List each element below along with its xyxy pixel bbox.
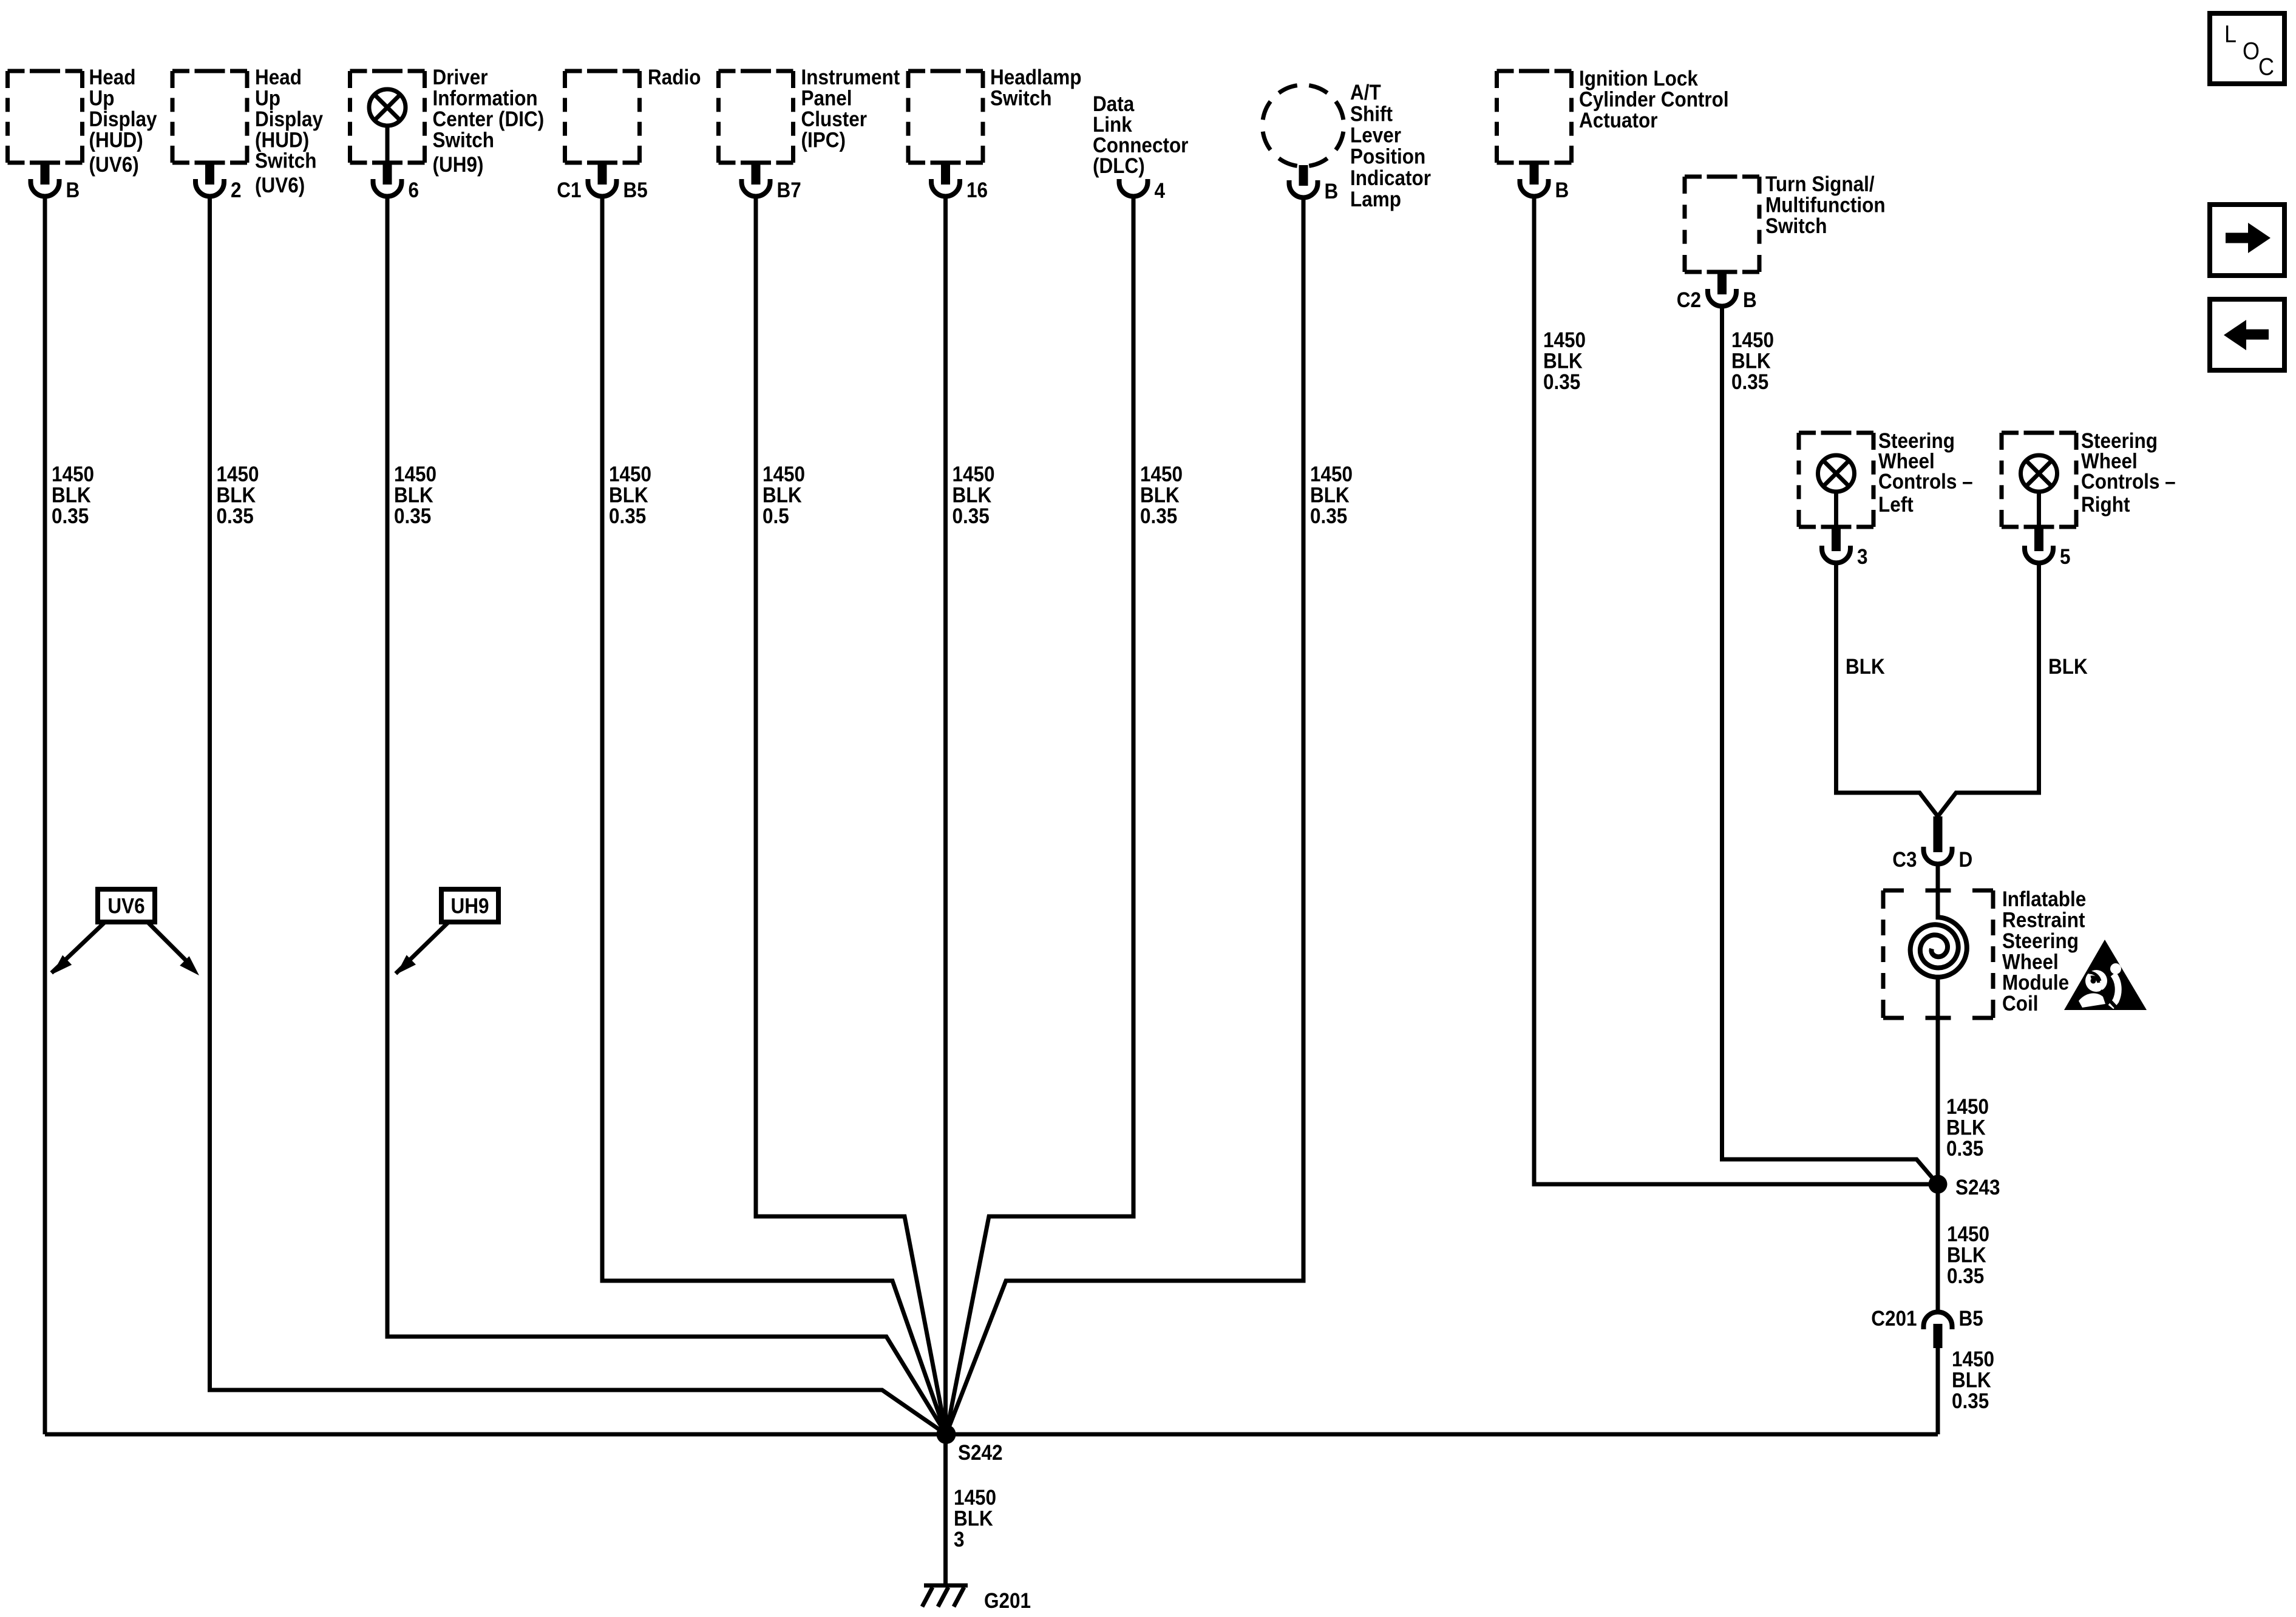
svg-text:Left: Left [1878,493,1914,517]
svg-text:3: 3 [1857,546,1868,569]
svg-text:C1: C1 [557,179,581,203]
svg-text:BLK: BLK [2048,656,2088,679]
svg-text:C201: C201 [1871,1307,1917,1331]
svg-text:B: B [66,179,80,203]
svg-text:0.35: 0.35 [953,504,990,528]
svg-text:4: 4 [1155,180,1166,203]
svg-text:(DLC): (DLC) [1093,155,1145,178]
svg-text:0.35: 0.35 [1731,370,1768,394]
svg-text:5: 5 [2060,546,2071,569]
svg-text:Actuator: Actuator [1579,109,1657,132]
svg-text:S242: S242 [958,1442,1003,1465]
svg-text:BLK: BLK [954,1507,993,1531]
svg-text:Inflatable: Inflatable [2002,888,2086,912]
svg-text:Switch: Switch [990,87,1051,110]
svg-text:(UV6): (UV6) [89,154,139,177]
svg-text:B5: B5 [623,179,648,203]
svg-text:B: B [1325,180,1339,204]
svg-text:C: C [2258,54,2274,81]
svg-text:BLK: BLK [1952,1369,1991,1392]
svg-text:0.35: 0.35 [217,504,254,528]
svg-text:Information: Information [433,87,538,110]
svg-text:BLK: BLK [763,484,802,507]
svg-text:Restraint: Restraint [2002,909,2085,932]
svg-text:Lamp: Lamp [1350,188,1401,212]
svg-text:L: L [2224,21,2237,48]
svg-text:BLK: BLK [953,484,992,507]
svg-text:BLK: BLK [217,484,256,507]
svg-text:Coil: Coil [2002,992,2038,1016]
svg-text:B: B [1743,289,1757,313]
svg-text:Position: Position [1350,145,1425,169]
svg-text:1450: 1450 [1946,1096,1989,1119]
svg-text:Ignition Lock: Ignition Lock [1579,67,1698,91]
svg-text:Module: Module [2002,971,2069,995]
svg-text:C2: C2 [1677,289,1701,313]
svg-text:BLK: BLK [1946,1116,1986,1140]
svg-text:2: 2 [231,179,242,203]
svg-text:Switch: Switch [433,129,494,152]
svg-text:1450: 1450 [953,463,995,487]
svg-text:Shift: Shift [1350,103,1393,126]
svg-text:BLK: BLK [52,484,91,507]
svg-text:1450: 1450 [217,463,259,487]
svg-text:Head: Head [255,66,302,90]
svg-text:(HUD): (HUD) [255,129,309,152]
svg-text:1450: 1450 [1947,1223,1989,1247]
svg-text:BLK: BLK [1846,656,1885,679]
svg-text:Multifunction: Multifunction [1765,194,1886,217]
svg-text:Switch: Switch [1765,214,1827,238]
svg-text:1450: 1450 [1140,463,1183,487]
svg-text:UV6: UV6 [107,895,144,918]
svg-text:0.35: 0.35 [1946,1137,1983,1161]
svg-text:Cylinder Control: Cylinder Control [1579,88,1729,112]
svg-text:0.35: 0.35 [1140,504,1177,528]
svg-text:3: 3 [954,1528,965,1551]
svg-text:Turn Signal/: Turn Signal/ [1765,173,1875,197]
svg-text:1450: 1450 [1543,329,1586,353]
svg-text:BLK: BLK [1543,350,1583,373]
svg-text:D: D [1959,849,1973,872]
svg-text:1450: 1450 [763,463,805,487]
svg-text:0.35: 0.35 [1947,1264,1984,1288]
svg-text:0.35: 0.35 [52,504,89,528]
svg-text:Center (DIC): Center (DIC) [433,107,545,131]
svg-text:Right: Right [2081,493,2130,517]
svg-text:C3: C3 [1892,849,1917,872]
svg-text:0.35: 0.35 [1310,504,1347,528]
svg-text:S243: S243 [1955,1176,2000,1200]
svg-text:B7: B7 [777,179,801,203]
svg-text:Wheel: Wheel [2002,951,2059,974]
svg-text:Controls –: Controls – [1878,470,1973,494]
svg-text:BLK: BLK [1310,484,1350,507]
svg-text:Display: Display [89,107,157,131]
svg-text:0.35: 0.35 [1952,1389,1989,1413]
svg-text:Panel: Panel [801,87,852,110]
svg-text:BLK: BLK [1731,350,1771,373]
svg-text:1450: 1450 [1952,1348,1994,1372]
svg-text:0.5: 0.5 [763,504,789,528]
svg-text:1450: 1450 [1731,329,1774,353]
svg-text:(IPC): (IPC) [801,129,846,152]
svg-text:16: 16 [966,179,988,203]
svg-text:1450: 1450 [1310,463,1353,487]
svg-text:B5: B5 [1959,1307,1983,1331]
svg-text:BLK: BLK [609,484,648,507]
svg-text:Driver: Driver [433,66,488,90]
svg-text:Up: Up [255,87,280,110]
svg-text:Head: Head [89,66,136,90]
svg-text:(UV6): (UV6) [255,174,305,198]
svg-text:1450: 1450 [609,463,651,487]
svg-text:0.35: 0.35 [609,504,646,528]
svg-text:Controls –: Controls – [2081,470,2176,494]
svg-text:Up: Up [89,87,115,110]
svg-text:Radio: Radio [648,66,701,90]
svg-text:1450: 1450 [394,463,436,487]
svg-text:BLK: BLK [1140,484,1180,507]
svg-text:Lever: Lever [1350,124,1401,147]
svg-text:G201: G201 [984,1590,1031,1613]
svg-text:(UH9): (UH9) [433,154,484,177]
svg-text:1450: 1450 [954,1486,996,1510]
svg-text:Instrument: Instrument [801,66,900,90]
svg-text:A/T: A/T [1350,81,1381,105]
svg-text:Indicator: Indicator [1350,166,1431,190]
svg-text:6: 6 [409,179,419,203]
svg-text:0.35: 0.35 [1543,370,1580,394]
svg-text:BLK: BLK [394,484,433,507]
svg-text:Headlamp: Headlamp [990,66,1081,90]
svg-text:Steering: Steering [2002,929,2079,953]
svg-text:Display: Display [255,107,323,131]
svg-text:0.35: 0.35 [394,504,431,528]
svg-text:B: B [1555,179,1569,203]
svg-text:O: O [2243,38,2260,65]
svg-text:Switch: Switch [255,149,316,173]
svg-text:1450: 1450 [52,463,94,487]
svg-text:UH9: UH9 [450,895,489,918]
svg-text:BLK: BLK [1947,1244,1986,1267]
svg-text:Cluster: Cluster [801,107,868,131]
svg-text:(HUD): (HUD) [89,129,143,152]
